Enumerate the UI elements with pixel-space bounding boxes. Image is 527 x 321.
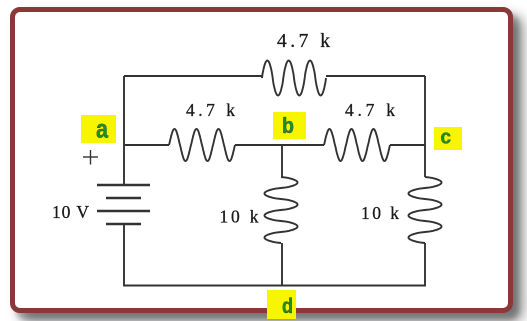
wire top right segment — [326, 75, 425, 77]
svg-text:10 k: 10 k — [361, 203, 399, 223]
svg-text:10 k: 10 k — [220, 207, 259, 227]
svg-text:4.7 k: 4.7 k — [277, 31, 330, 52]
resistor R2 4.7k — [324, 129, 390, 161]
svg-text:4.7 k: 4.7 k — [186, 100, 235, 120]
svg-text:c: c — [441, 127, 452, 149]
battery B1 plates — [97, 185, 150, 224]
wire left upper top corner through node a to battery — [123, 76, 125, 185]
wire right side upper — [424, 76, 426, 177]
wire node b down — [281, 145, 283, 177]
resistor R_top 4.7k — [262, 61, 326, 96]
resistor R_mid 10k — [265, 177, 298, 243]
wire middle right segment R2 to node c — [390, 144, 425, 146]
svg-text:4.7 k: 4.7 k — [345, 100, 395, 120]
wire right side lower — [424, 243, 426, 287]
wire middle center segment R1 to node b to R2 — [235, 144, 324, 146]
svg-text:d: d — [282, 295, 293, 318]
node a — [81, 115, 116, 143]
wire middle left segment node a to R1 — [124, 144, 169, 146]
node c — [434, 127, 462, 150]
wire top left segment — [124, 75, 262, 77]
plus sign — [83, 150, 98, 165]
svg-text:10 V: 10 V — [52, 202, 89, 222]
wire bottom — [124, 285, 425, 287]
node b — [273, 112, 306, 139]
resistor R1 4.7k — [169, 129, 235, 161]
svg-text:a: a — [96, 114, 108, 144]
resistor R_right 10k — [409, 177, 442, 243]
node d — [267, 290, 296, 319]
wire below 10k to bottom node d — [281, 243, 283, 286]
svg-text:b: b — [282, 113, 294, 138]
wire left lower battery to bottom — [123, 224, 125, 287]
